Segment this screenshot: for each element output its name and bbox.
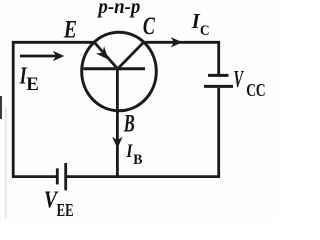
arrowhead current IC on top wire (right)	[171, 37, 183, 47]
svg-text:CC: CC	[246, 80, 265, 100]
svg-text:B: B	[123, 110, 135, 137]
battery VCC bottom plate	[204, 85, 233, 88]
battery VCC top plate	[208, 74, 229, 77]
wire: right vertical upper (to VCC)	[217, 41, 220, 74]
battery VEE left plate (short)	[56, 168, 59, 184]
transistor Q1 emitter diagonal	[95, 43, 118, 69]
arrowhead current IB (down)	[112, 137, 122, 149]
wire: bottom horizontal right segment (VEE to right corner)	[67, 175, 220, 178]
svg-text:E: E	[26, 74, 39, 95]
svg-text:p-n-p: p-n-p	[97, 0, 141, 18]
wire: bottom horizontal left segment (to VEE)	[12, 175, 56, 178]
scan artifact faint vertical line	[5, 108, 6, 218]
svg-text:V: V	[234, 67, 245, 93]
transistor Q1 emitter arrowhead (pnp, into base)	[96, 46, 113, 63]
scan artifact left edge	[0, 96, 2, 119]
arrow current IE shaft	[20, 55, 56, 58]
transistor Q1 collector diagonal	[118, 42, 144, 69]
transistor Q1 base bar	[84, 67, 146, 70]
svg-text:C: C	[200, 23, 210, 39]
svg-text:E: E	[63, 17, 77, 44]
svg-text:C: C	[143, 13, 155, 40]
battery VEE right plate (tall)	[64, 163, 67, 190]
wire: base lead vertical	[116, 69, 119, 177]
wire: top-left horizontal E lead	[12, 41, 95, 44]
svg-text:I: I	[126, 142, 133, 162]
transistor Q1 circle outline	[82, 32, 157, 111]
svg-text:EE: EE	[57, 200, 74, 220]
wire: left vertical (emitter loop)	[12, 41, 15, 177]
wire: top-right horizontal C lead	[143, 41, 220, 44]
svg-text:B: B	[133, 152, 143, 168]
arrowhead current IE (right)	[53, 51, 65, 61]
wire: right vertical lower (VCC to bottom)	[217, 88, 220, 178]
